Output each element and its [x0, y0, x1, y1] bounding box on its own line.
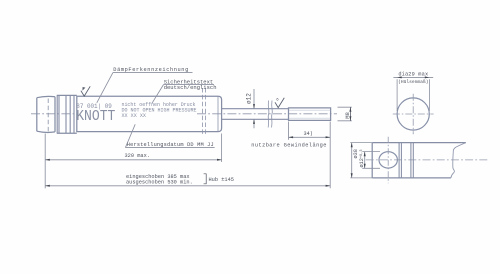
svg-text:ø38: ø38	[353, 149, 359, 158]
svg-text:M8: M8	[344, 112, 351, 119]
svg-text:deutsch/englisch: deutsch/englisch	[164, 84, 217, 91]
svg-text:dia29 max: dia29 max	[398, 71, 428, 77]
svg-text:ausgeschoben 530 min.: ausgeschoben 530 min.	[126, 180, 193, 186]
svg-text:34): 34)	[304, 131, 313, 137]
svg-text:320 max.: 320 max.	[125, 153, 150, 159]
svg-text:XX XX XX: XX XX XX	[122, 113, 147, 119]
svg-text:KNOTT: KNOTT	[76, 109, 115, 125]
svg-text:ø12: ø12	[246, 93, 253, 104]
svg-text:Hub ±145: Hub ±145	[209, 177, 234, 183]
svg-text:Herstellungsdatum DD MM JJ: Herstellungsdatum DD MM JJ	[127, 142, 214, 148]
svg-text:nutzbare Gewindelänge: nutzbare Gewindelänge	[251, 142, 327, 148]
svg-text:DämpFerkennzeichnung: DämpFerkennzeichnung	[113, 67, 189, 73]
svg-text:(Hülsenmaß): (Hülsenmaß)	[398, 79, 428, 85]
